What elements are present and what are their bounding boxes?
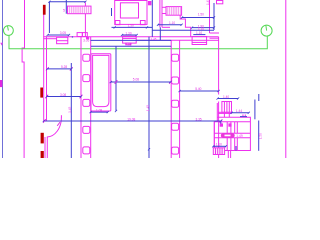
dim line 5.28 bbox=[47, 68, 71, 70]
column pad plan bbox=[115, 1, 147, 25]
window symbol right bbox=[192, 37, 207, 45]
top wall stub y7 bbox=[162, 6, 166, 8]
svg-text:1.08: 1.08 bbox=[96, 109, 102, 113]
dim line 1.90 right bbox=[192, 27, 214, 29]
pink wall fill under main wall bbox=[86, 37, 89, 39]
svg-text:5.40: 5.40 bbox=[195, 87, 201, 91]
dim line 1.10 hatch2 bbox=[158, 24, 182, 26]
svg-text:1.10: 1.10 bbox=[196, 31, 202, 35]
left wall column box 4 bbox=[83, 126, 90, 133]
dim vertical x214 bbox=[213, 3, 215, 30]
dim line 5.08 bbox=[111, 81, 171, 83]
red wall section fill bottom bbox=[41, 151, 44, 158]
svg-text:5.08: 5.08 bbox=[133, 78, 139, 82]
svg-text:3.35: 3.35 bbox=[196, 117, 202, 121]
elevator car pill bbox=[221, 134, 235, 138]
magenta tiny labels bbox=[68, 0, 263, 139]
CAD floor plan drawing bbox=[0, 0, 290, 158]
wall line y38 right bbox=[210, 37, 219, 39]
svg-text:1.50: 1.50 bbox=[259, 133, 263, 139]
red wall section fill at door jamb bbox=[41, 133, 44, 144]
blue dim oblique ticks bbox=[43, 1, 250, 151]
right column wall west line bbox=[170, 40, 172, 158]
red wall section fill top bbox=[43, 5, 46, 15]
right wall column box 4 bbox=[172, 123, 179, 130]
svg-text:3.05: 3.05 bbox=[83, 38, 89, 42]
green datum circle left bbox=[3, 26, 13, 36]
stair hatch box 2 bbox=[166, 7, 182, 16]
pink arrow tick on left border bbox=[0, 43, 3, 46]
elevator shaft outline bbox=[214, 117, 250, 150]
dim line 3.05 room y40 bbox=[91, 39, 172, 41]
dim line 5.40 bbox=[180, 90, 219, 92]
left room wall below door outer bbox=[44, 137, 46, 158]
dim line 1.30 window bbox=[122, 34, 137, 36]
left room wall below door inner bbox=[46, 137, 48, 158]
elevator lower rail lines bbox=[226, 138, 228, 151]
pink label block on left border bbox=[0, 80, 2, 87]
left blue viewport border line bbox=[2, 0, 4, 158]
elevator upper rail lines bbox=[226, 122, 228, 134]
dim extension x152 upper bbox=[151, 0, 153, 37]
left column wall east line bbox=[90, 37, 92, 158]
svg-text:1.45: 1.45 bbox=[68, 106, 72, 112]
dim extension x160 bbox=[159, 27, 161, 40]
main wall bottom line centre segment bbox=[136, 39, 192, 41]
left wall column box 1 bbox=[83, 54, 90, 61]
dim extension x66 bbox=[65, 0, 67, 14]
dimension value texts bbox=[60, 12, 243, 146]
svg-text:5: 5 bbox=[63, 7, 66, 12]
dim extension x116 bbox=[115, 46, 117, 111]
top wall horizontal return y27 bbox=[162, 26, 170, 28]
left wall column box 2 bbox=[83, 75, 90, 82]
top wall x162 inner line bbox=[161, 0, 163, 27]
left wall column box 3 bbox=[83, 99, 90, 106]
dim line top y1.7 bbox=[49, 1, 85, 3]
pink dim arrow ticks bbox=[43, 67, 222, 126]
svg-text:1.10: 1.10 bbox=[169, 21, 175, 25]
elevator door jamb blocks bbox=[220, 123, 223, 126]
window symbol centre bbox=[123, 36, 137, 43]
right wall lower segment bbox=[218, 102, 220, 159]
svg-text:3.05: 3.05 bbox=[60, 31, 66, 35]
svg-text:1.45: 1.45 bbox=[146, 105, 150, 111]
mini stair box bbox=[222, 102, 232, 113]
top wall x160 outer line bbox=[159, 0, 161, 27]
svg-text:1.50: 1.50 bbox=[128, 24, 134, 28]
left wall column box 5 bbox=[83, 147, 90, 154]
dim line 1.40 bbox=[218, 98, 239, 100]
dim extension x49 bbox=[48, 2, 50, 33]
dim stub x236 bbox=[235, 146, 237, 151]
dim extension x71 bbox=[70, 63, 72, 158]
top right wall step rect bbox=[217, 1, 223, 4]
svg-text:5.28: 5.28 bbox=[61, 65, 67, 69]
right wall inner line bbox=[216, 103, 218, 122]
dim line 1.10 lower right bbox=[193, 34, 205, 36]
top right wall vertical bbox=[209, 0, 211, 33]
twin wall boxes on main wall bbox=[77, 33, 82, 37]
right wall column box 3 bbox=[172, 100, 179, 107]
red wall section fill middle bbox=[40, 88, 43, 98]
right wall column box 1 bbox=[172, 54, 179, 61]
main wall bottom line right segment bbox=[207, 39, 219, 41]
dim line long y121 bbox=[44, 120, 221, 122]
left room wall inner line bbox=[46, 37, 48, 121]
magenta cap block near x149 top bbox=[148, 1, 151, 5]
svg-text:19.08: 19.08 bbox=[127, 117, 135, 121]
dim line 1.10 bottom bbox=[213, 145, 226, 147]
elevator mid band lines bbox=[214, 132, 250, 134]
svg-text:1.45: 1.45 bbox=[151, 37, 157, 41]
wall stubs below elevator bbox=[227, 151, 229, 159]
stair hatch box 1 bbox=[68, 6, 92, 14]
dim vertical elevator height bbox=[258, 121, 260, 151]
dim vertical x255 bbox=[254, 100, 256, 120]
stair hatch box 3 bbox=[213, 148, 224, 155]
right wall upper segment bbox=[218, 37, 220, 95]
dim line 7.08 y46 bbox=[91, 45, 171, 47]
left magenta property line with jogs bbox=[22, 0, 24, 158]
svg-text:3.08: 3.08 bbox=[60, 93, 66, 97]
dim tick pad left bbox=[111, 8, 113, 16]
dim line 1.08 bbox=[91, 111, 108, 113]
green datum circle right bbox=[261, 25, 272, 36]
svg-text:7.08: 7.08 bbox=[125, 43, 131, 47]
upper wall stub x85 bbox=[84, 3, 86, 37]
dim line pad 1.50 bbox=[112, 26, 153, 28]
svg-text:1.10: 1.10 bbox=[216, 142, 222, 146]
dim stub y116.6 bbox=[240, 116, 247, 118]
staircase step wall bbox=[180, 15, 191, 37]
right wall column box 5 bbox=[172, 147, 179, 154]
dim line 1.50 right bbox=[182, 17, 214, 19]
dim line 1.10 upper right bbox=[152, 29, 214, 31]
left room wall outer line bbox=[43, 14, 45, 121]
main horizontal wall top line bbox=[43, 36, 218, 38]
door swing arc bbox=[47, 117, 62, 137]
mini stair base lines bbox=[218, 111, 232, 113]
svg-text:1.45: 1.45 bbox=[206, 0, 210, 5]
svg-text:1.49: 1.49 bbox=[236, 134, 243, 138]
right magenta border line bbox=[285, 0, 287, 158]
bathtub outline bbox=[91, 54, 111, 111]
right wall column box 2 bbox=[172, 77, 179, 84]
top right wall horizontal bbox=[210, 32, 220, 34]
elevator left edge bbox=[213, 122, 215, 151]
svg-text:1.50: 1.50 bbox=[198, 12, 204, 16]
svg-text:1.30: 1.30 bbox=[125, 31, 131, 35]
main wall inner line left segment bbox=[43, 38, 56, 40]
elevator inner top line bbox=[214, 121, 250, 123]
dim extension x149 long bbox=[148, 37, 150, 158]
wall niche symbol bbox=[57, 37, 68, 43]
svg-text:1.44: 1.44 bbox=[236, 109, 242, 113]
top wall stub y13 bbox=[162, 13, 166, 15]
green datum leader line bbox=[9, 35, 267, 48]
dim line 3.08 bbox=[47, 96, 81, 98]
dim vertical stub x259 bbox=[258, 94, 260, 101]
dim line 3.05 left bbox=[48, 34, 69, 36]
left column wall west line bbox=[80, 37, 82, 158]
svg-text:1.40: 1.40 bbox=[223, 95, 229, 99]
dim line 1.44 bbox=[232, 112, 249, 114]
door leaf tick bbox=[60, 115, 62, 117]
dim end stub x221 bbox=[220, 121, 222, 124]
right column wall east line bbox=[179, 40, 181, 158]
pink marker dots near 1.44 dim bbox=[242, 115, 243, 116]
blue node dot x72 bbox=[72, 36, 73, 37]
